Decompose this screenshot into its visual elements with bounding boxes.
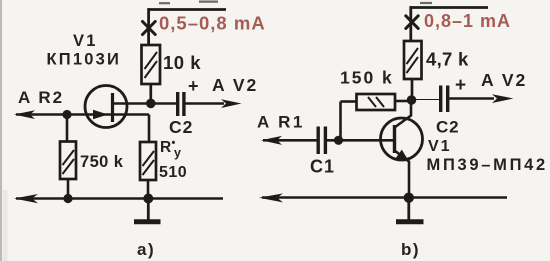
capacitor C1 [318, 127, 394, 155]
svg-text:R: R [160, 139, 171, 156]
supply break X mark (a) [143, 22, 156, 35]
wire: Rу bottom lead [147, 180, 150, 199]
arrowhead left on bottom rail (a) [14, 194, 38, 203]
node: drain/output junction [146, 99, 156, 109]
wire: 150k right lead to node [395, 100, 411, 103]
ground (b) [396, 198, 424, 222]
svg-text:4,7 k: 4,7 k [426, 49, 469, 70]
node: collector/output junction [407, 95, 417, 105]
wire: bottom rail (a) [16, 197, 223, 200]
svg-text:10 k: 10 k [163, 52, 201, 73]
svg-text:0,5–0,8 mA: 0,5–0,8 mA [159, 13, 266, 34]
wire: gate/source horizontal line with left arrow (A R2 line) [16, 115, 149, 143]
svg-text:b): b) [401, 240, 420, 259]
arrowhead right (A V2, a) [221, 99, 242, 108]
resistor Rу 510 [140, 142, 156, 180]
svg-text:C2: C2 [169, 117, 193, 137]
arrowhead right (A V2, b) [492, 94, 514, 103]
svg-text:510: 510 [159, 164, 187, 181]
svg-text:C1: C1 [310, 157, 335, 177]
svg-text:+: + [455, 75, 466, 96]
wire: base line with left arrow (A R1 line) [263, 139, 317, 142]
svg-text:A V2: A V2 [481, 70, 527, 90]
arrowhead left on bottom rail (b) [259, 193, 283, 202]
wire: supply top horizontal (b) [410, 6, 488, 41]
node: Rу/ground to rail [143, 194, 153, 204]
node: 750k to rail [63, 194, 72, 203]
svg-text:C2: C2 [436, 118, 459, 137]
supply break X mark (b) [406, 16, 418, 29]
svg-text:+: + [188, 76, 199, 96]
wire: 10k bottom lead [149, 84, 152, 104]
resistor 750 k [60, 142, 76, 180]
node: base junction [334, 136, 343, 145]
wire: 4,7k bottom lead [411, 79, 414, 100]
node: emitter/ground to rail [404, 193, 414, 203]
wire: 150k left lead, corner down to base [341, 102, 357, 141]
wire: bottom rail (b) [262, 196, 507, 199]
capacitor C2 (b) [412, 86, 495, 113]
svg-text:A V2: A V2 [212, 75, 258, 95]
svg-text:a): a) [137, 240, 155, 259]
svg-text:V1: V1 [73, 32, 98, 50]
resistor 150 k [357, 94, 396, 110]
svg-text:0,8–1 mA: 0,8–1 mA [424, 11, 511, 31]
transistor V1 МП39-МП42 (BJT) [381, 100, 423, 198]
emitter arrowhead [396, 150, 410, 163]
wire: drain to output node [113, 102, 152, 105]
svg-text:КП103И: КП103И [47, 51, 122, 69]
node: gate junction [62, 110, 71, 119]
svg-text:A R1: A R1 [257, 113, 305, 132]
svg-text:у: у [174, 146, 181, 160]
wire: supply top horizontal (a) [148, 8, 227, 45]
capacitor C2 (a) [151, 92, 224, 116]
scan artifact dashes above top wire (a) [159, 2, 218, 4]
scan artifact dash above top wire (b) [420, 2, 432, 4]
resistor 10 k [142, 45, 161, 84]
ground (a) [134, 199, 161, 222]
svg-text:A R2: A R2 [18, 88, 64, 107]
arrowhead left (A R1) [261, 136, 282, 145]
resistor 4,7 k [404, 41, 422, 79]
wire: down to 750k [66, 115, 69, 142]
scan edge band [0, 0, 2, 261]
gate arrowhead into channel [93, 110, 108, 119]
svg-text:150 k: 150 k [340, 68, 394, 88]
wire: 750k bottom lead [67, 179, 70, 199]
svg-text:750 k: 750 k [80, 153, 124, 171]
svg-text:МП39–МП42: МП39–МП42 [427, 156, 548, 174]
transistor V1 КП103И (JFET) [85, 86, 127, 128]
svg-text:V1: V1 [428, 138, 452, 155]
arrowhead left (A R2) [14, 110, 35, 119]
